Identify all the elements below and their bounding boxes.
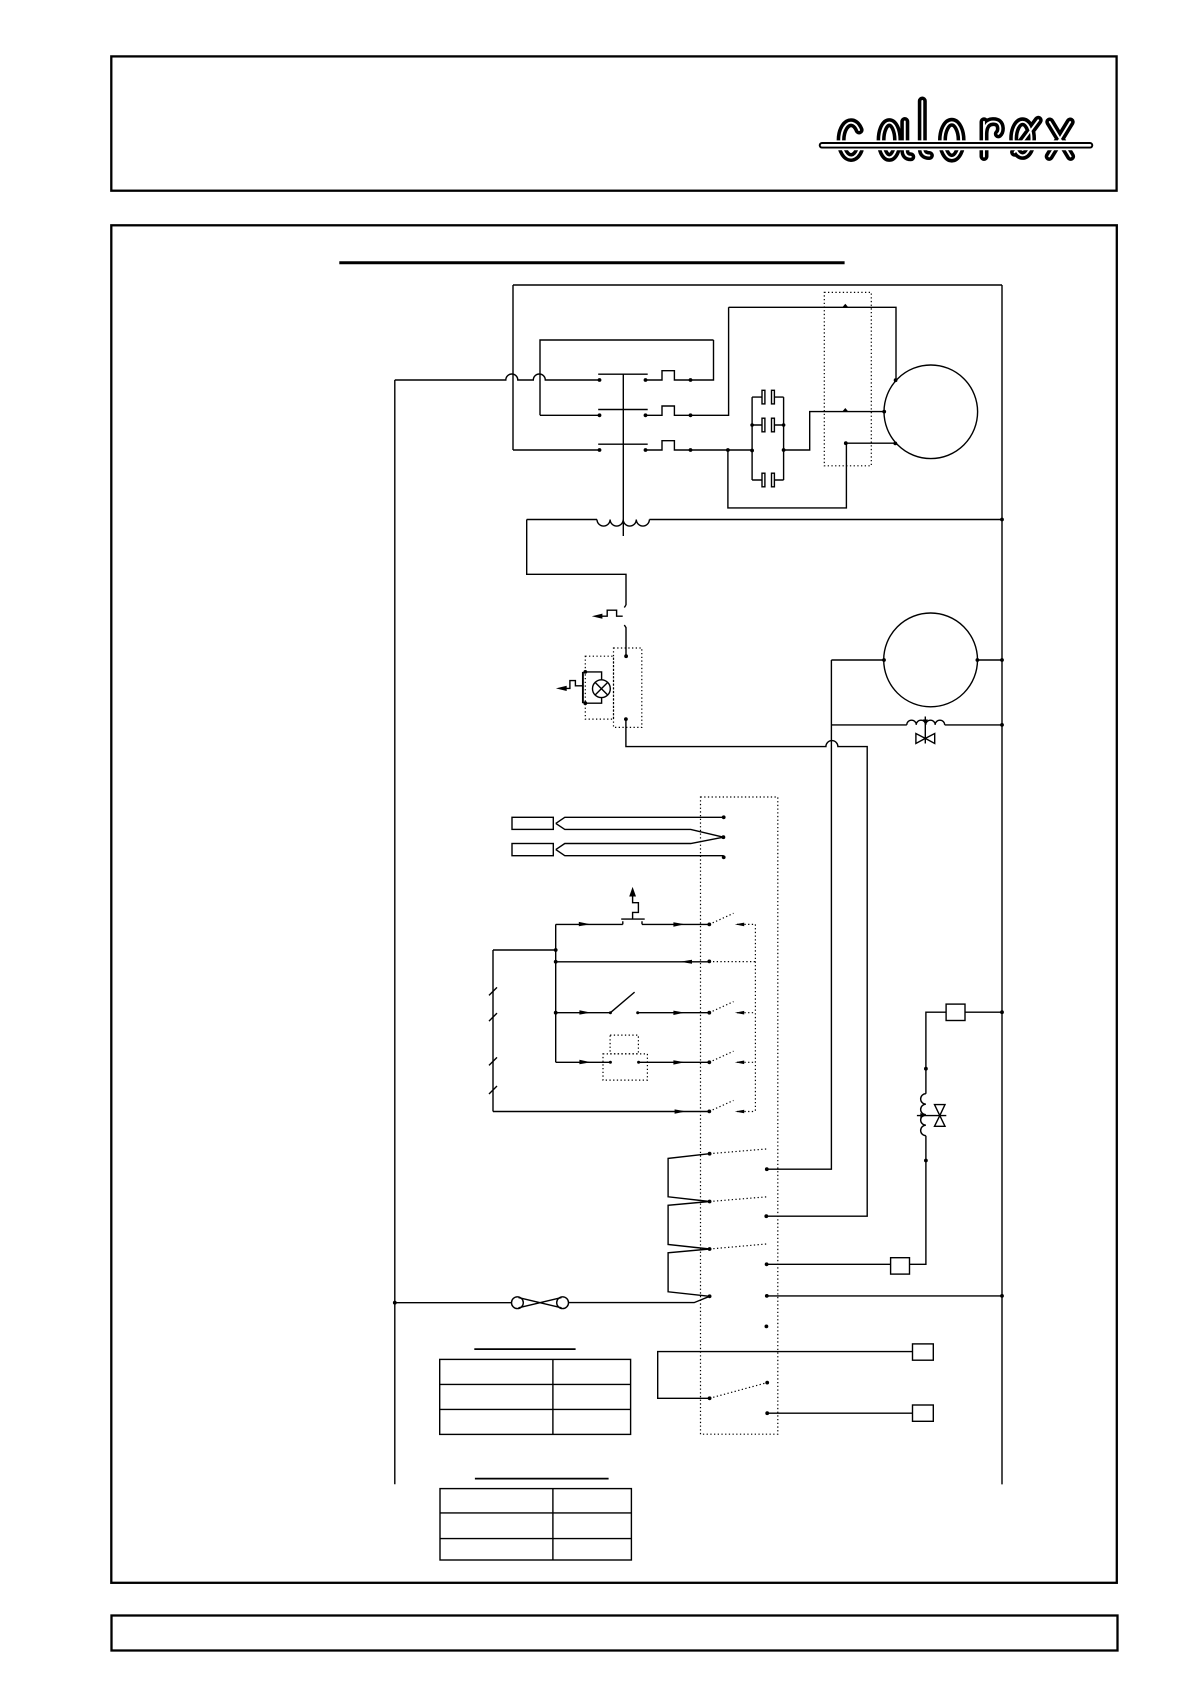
stat contact row A xyxy=(709,913,755,926)
wire control to heater contacts xyxy=(626,719,867,1216)
heater element R3 xyxy=(668,1244,767,1298)
flow switch row A xyxy=(556,887,711,927)
wire M2 feed down xyxy=(767,660,832,1169)
plug and socket connector xyxy=(512,1297,569,1309)
heater element R1 xyxy=(668,1149,767,1202)
motor M1 compressor xyxy=(884,365,978,459)
junction node phase3-cap xyxy=(726,448,785,452)
wire heater feed xyxy=(569,1296,710,1302)
wire stat left drop xyxy=(489,950,497,1112)
wire row E xyxy=(493,1109,711,1113)
spare node xyxy=(765,1325,769,1329)
sensor probe B1 xyxy=(512,815,726,837)
defrost contact row F xyxy=(708,1381,769,1401)
wire left drop to phase 3 xyxy=(512,285,514,450)
stat contact row C xyxy=(709,1002,755,1015)
wire stat feed rail xyxy=(493,924,558,1062)
thermostat dashed enclosure xyxy=(701,797,778,1434)
wire heater out 3 xyxy=(765,1262,891,1266)
wire defrost feed xyxy=(658,1352,913,1399)
lamp dashed enclosure xyxy=(585,656,613,719)
stat contact row E xyxy=(709,1100,755,1113)
wire heater out 2 xyxy=(764,1214,768,1218)
valve Y1 body xyxy=(916,717,935,744)
capacitor C2 xyxy=(750,418,785,432)
contactor coil L1 on control wire xyxy=(527,518,1004,526)
capacitor bank rails xyxy=(752,397,784,480)
legend table 1 xyxy=(440,1349,631,1434)
legend table 2 xyxy=(440,1479,631,1560)
capacitor C1 xyxy=(752,390,784,404)
solenoid valve Y2 line xyxy=(910,1012,947,1264)
wire phase 1 row xyxy=(395,340,714,380)
pressure actuator arrow 1 xyxy=(592,610,623,619)
wire row B xyxy=(556,960,756,964)
wire connector to rail xyxy=(393,1301,512,1305)
solenoid valve Y1 coil xyxy=(831,720,1003,727)
wire phase 2 to motor top xyxy=(729,307,896,379)
pressure switch contact xyxy=(624,605,626,656)
valve Y2 body xyxy=(917,1105,946,1127)
overload contact dots xyxy=(689,378,693,452)
stat contact row D xyxy=(709,1051,755,1064)
junction dot lamp out xyxy=(624,717,628,721)
capacitor C3 xyxy=(752,473,784,487)
heater element R2 xyxy=(668,1197,767,1249)
wire heater out 4 xyxy=(765,1294,1004,1298)
relay dashed enclosure xyxy=(824,292,871,465)
pressure actuator arrow 2 xyxy=(556,681,583,691)
sensor probe B2 xyxy=(512,835,726,859)
contactor K1 poles xyxy=(598,374,648,536)
lamp H1 xyxy=(583,670,610,705)
terminal box defrost out xyxy=(913,1405,934,1421)
wire phase swap loop top xyxy=(540,340,714,415)
stat selector dotted rail xyxy=(754,924,756,1111)
motor M2 fan xyxy=(831,613,1003,707)
wire control branch left xyxy=(527,520,626,606)
wire phase 2 row xyxy=(540,307,729,415)
junction dot control in xyxy=(624,654,628,658)
switch row C xyxy=(556,992,711,1015)
wire phase 3 lower branch xyxy=(728,443,895,508)
terminal box defrost feed xyxy=(913,1344,934,1360)
solenoid valve Y2 coil xyxy=(921,1094,926,1136)
defrost stat dashed boxes row D xyxy=(603,1035,647,1080)
terminal box solenoid low xyxy=(891,1258,910,1274)
terminal box solenoid high xyxy=(946,1004,1004,1020)
wire row D xyxy=(556,1060,711,1065)
control dashed enclosure xyxy=(614,648,642,727)
wire right supply rail xyxy=(1001,285,1003,1484)
wire supply top edge xyxy=(513,284,1002,286)
title underline xyxy=(339,261,844,264)
wire phase 3 row xyxy=(513,412,884,450)
wire heater out 1 xyxy=(765,1167,769,1171)
wire left main rail xyxy=(394,380,396,1484)
wire defrost out xyxy=(765,1411,912,1415)
calorex logo xyxy=(822,101,1090,158)
junction dots at motor M1 leads xyxy=(844,378,898,445)
